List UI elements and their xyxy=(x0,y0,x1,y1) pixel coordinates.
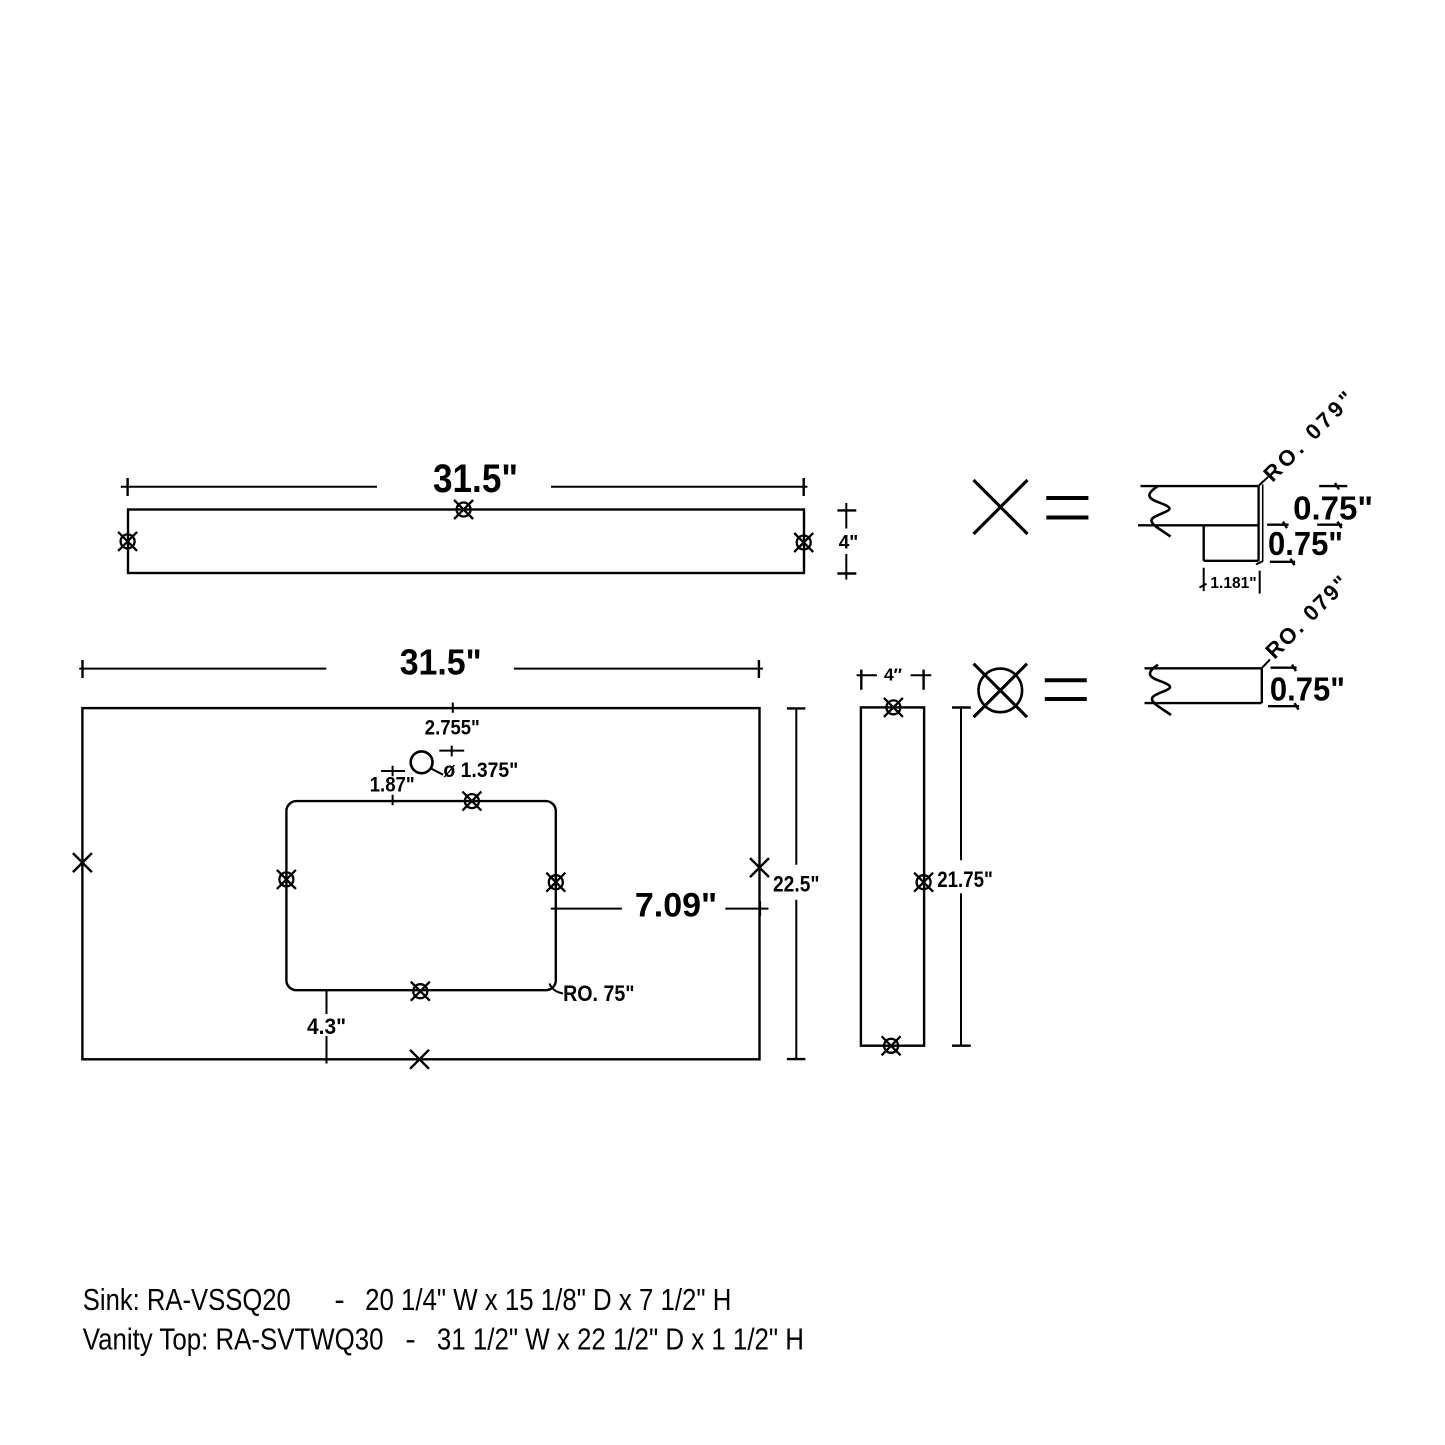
edge profile with apron: roundover second line xyxy=(1262,484,1264,561)
svg-text:0.75": 0.75" xyxy=(1293,490,1373,527)
faucet hole mark (crossed circle) side bottom xyxy=(882,1036,901,1055)
dimension 7.09" line left segment xyxy=(551,908,622,910)
faucet hole mark (crossed circle) side right edge xyxy=(914,873,933,892)
dimension 4 inch (side) right tick xyxy=(922,670,924,690)
dimension 4" (backsplash height) top tick xyxy=(837,509,856,511)
edge profile with apron: apron left edge xyxy=(1202,525,1204,561)
svg-text:7.09": 7.09" xyxy=(635,887,717,925)
dimension 31.5" (backsplash) line right segment xyxy=(551,486,807,488)
X mark plan right edge xyxy=(750,858,769,877)
X mark plan bottom edge xyxy=(410,1050,429,1069)
plain edge profile: break squiggle xyxy=(1150,665,1171,715)
dimension 22.5" line upper segment xyxy=(795,708,797,864)
svg-text:4″: 4″ xyxy=(884,665,903,685)
svg-text:0.75": 0.75" xyxy=(1268,525,1343,562)
backsplash front view outline xyxy=(128,510,804,574)
dimension 0.75" plain: top line xyxy=(1271,665,1297,672)
svg-text:31 1/2" W x 22 1/2" D x 1 1/2": 31 1/2" W x 22 1/2" D x 1 1/2" H xyxy=(437,1322,804,1357)
X mark plan left edge xyxy=(73,853,92,872)
legend X symbol xyxy=(974,480,1028,534)
dimension 31.5" (backsplash) left tick xyxy=(126,478,128,496)
leader to RO. 079" (lower) xyxy=(1262,660,1270,668)
svg-text:-: - xyxy=(334,1282,344,1317)
plus tick left of faucet hole xyxy=(381,766,405,776)
edge profile with apron: slab bottom line xyxy=(1138,524,1259,526)
dimension 0.75" plain: bottom line xyxy=(1268,703,1299,710)
dimension 4 inch (side) line left segment xyxy=(857,674,877,676)
dimension 31.5" (plan) line left segment xyxy=(79,668,326,670)
svg-text:Sink: RA-VSSQ20: Sink: RA-VSSQ20 xyxy=(83,1282,291,1317)
svg-text:0.75": 0.75" xyxy=(1270,671,1345,708)
svg-text:20 1/4" W x 15 1/8" D x 7 1/2": 20 1/4" W x 15 1/8" D x 7 1/2" H xyxy=(365,1282,731,1317)
dimension 4 inch (side) line right segment xyxy=(911,674,932,676)
dimension 0.75" upper: top arrow line xyxy=(1319,483,1347,490)
svg-text:2.755": 2.755" xyxy=(425,716,480,740)
vanity top plan view outline xyxy=(82,708,759,1059)
dimension 4.3" line lower segment xyxy=(326,1036,328,1064)
faucet hole mark (crossed circle) sink right edge xyxy=(546,873,565,892)
sink cutout rounded rectangle xyxy=(286,801,555,990)
dimension 1.181" left tick xyxy=(1200,568,1207,591)
tick 1.87" at sink top edge xyxy=(392,795,394,805)
legend crossed-circle symbol xyxy=(974,664,1027,717)
dimension 21.75" line upper segment xyxy=(960,708,962,861)
legend equals sign bottom xyxy=(1045,680,1087,699)
dimension 7.09" tick xyxy=(759,901,761,915)
dimension 31.5" (plan) right tick xyxy=(758,660,760,678)
svg-text:-: - xyxy=(405,1322,415,1357)
edge profile with apron: apron bottom line xyxy=(1204,560,1259,562)
dimension 31.5" (plan) left tick xyxy=(81,660,83,678)
plain edge profile: right edge xyxy=(1261,668,1263,703)
faucet hole mark (crossed circle) backsplash right xyxy=(794,533,813,552)
dimension 21.75" top tick xyxy=(952,706,971,708)
svg-text:31.5": 31.5" xyxy=(433,457,518,501)
edge profile with apron: right edge xyxy=(1257,486,1259,561)
dimension 0.75" upper: bottom arrow line xyxy=(1267,522,1289,529)
faucet hole mark (crossed circle) backsplash top center xyxy=(454,500,473,519)
dimension 21.75" bottom tick xyxy=(952,1044,971,1046)
dimension 4 inch (side) left tick xyxy=(860,670,862,690)
svg-text:4.3": 4.3" xyxy=(307,1014,346,1039)
svg-text:4": 4" xyxy=(839,533,859,554)
svg-text:Vanity Top: RA-SVTWQ30: Vanity Top: RA-SVTWQ30 xyxy=(83,1322,384,1357)
dimension 4" (backsplash height) line upper segment xyxy=(845,503,847,529)
dimension 21.75" line lower segment xyxy=(960,893,962,1045)
faucet hole circle xyxy=(411,751,433,773)
dimension 31.5" (backsplash) right tick xyxy=(803,478,805,496)
side view strip outline xyxy=(861,707,924,1045)
svg-text:31.5": 31.5" xyxy=(400,642,482,683)
dimension 1.181" right tick xyxy=(1256,561,1263,594)
plain edge profile: top line xyxy=(1145,667,1262,669)
dimension 0.75" lower: top arrow line xyxy=(1317,522,1342,529)
svg-text:1.87": 1.87" xyxy=(370,773,415,797)
faucet hole mark (crossed circle) side top xyxy=(884,698,903,717)
dimension 7.09" line right segment xyxy=(725,908,768,910)
faucet hole mark (crossed circle) sink left edge xyxy=(277,870,296,889)
svg-text:ø 1.375": ø 1.375" xyxy=(443,758,518,782)
dimension 22.5" line lower segment xyxy=(795,900,797,1059)
dimension 4.3" line upper segment xyxy=(326,990,328,1014)
plain edge profile: bottom line xyxy=(1145,702,1262,704)
dimension 22.5" bottom tick xyxy=(787,1058,805,1060)
faucet hole mark (crossed circle) backsplash left xyxy=(118,532,137,551)
svg-text:21.75": 21.75" xyxy=(937,867,993,892)
tick 2.755" at plan top edge xyxy=(452,703,454,713)
dimension 22.5" top tick xyxy=(787,707,805,709)
edge profile with apron: slab top line xyxy=(1141,485,1259,487)
dimension 31.5" (plan) line right segment xyxy=(514,668,763,670)
legend equals sign top xyxy=(1046,498,1088,518)
leader to RO. 079" (upper) xyxy=(1259,477,1269,486)
leader line to diameter label xyxy=(431,769,443,775)
svg-text:1.181": 1.181" xyxy=(1210,575,1256,592)
svg-text:22.5": 22.5" xyxy=(773,872,820,897)
faucet hole mark (crossed circle) sink top edge xyxy=(462,792,481,811)
dimension 4" (backsplash height) bottom tick xyxy=(837,572,856,574)
dimension 31.5" (backsplash) line left segment xyxy=(121,486,377,488)
edge profile with apron: break squiggle xyxy=(1149,486,1170,536)
svg-text:RO. 75": RO. 75" xyxy=(563,981,635,1006)
leader for RO. 75" label xyxy=(550,984,564,994)
dimension 0.75" lower: bottom arrow line xyxy=(1270,559,1295,566)
plus tick right of faucet hole xyxy=(439,746,464,757)
dimension 4" (backsplash height) line lower segment xyxy=(845,554,847,580)
faucet hole mark (crossed circle) sink bottom edge xyxy=(411,982,430,1001)
